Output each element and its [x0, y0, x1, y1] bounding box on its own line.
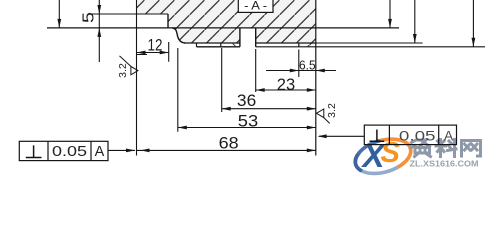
svg-text:6.5: 6.5 [299, 57, 316, 72]
svg-text:68: 68 [219, 134, 239, 152]
left edge + extension line [136, 0, 138, 156]
svg-text:3.2: 3.2 [326, 103, 338, 118]
small tick near left extension [137, 54, 148, 56]
arrow down on line 4 [472, 38, 476, 47]
lip left wall [298, 43, 300, 47]
left frame leader arrow [126, 149, 135, 153]
right frame perpendicularity symbol [370, 130, 385, 142]
bottom step tick [196, 43, 198, 47]
left roughness symbol 3.2 [120, 56, 138, 75]
dimension 5 arrows [97, 5, 101, 14]
dimension 12 line [137, 52, 169, 54]
recess top edge right of groove [256, 42, 316, 44]
right tolerance frame [364, 125, 456, 145]
dimension 36 arrows [222, 107, 231, 111]
part outlines [47, 0, 485, 156]
right frame leader [319, 135, 364, 137]
datum box void [238, 0, 273, 12]
svg-text:36: 36 [237, 92, 256, 110]
svg-text:0.05: 0.05 [52, 144, 87, 160]
recess top edge left of groove [184, 42, 240, 44]
arrow down on line 2 [388, 19, 392, 28]
groove void [240, 29, 256, 47]
groove left wall [239, 28, 241, 47]
dimension 68 arrows [141, 149, 150, 153]
bottom face left segment [197, 46, 240, 48]
watermark character 料 [436, 140, 456, 157]
left frame perpendicularity symbol [26, 145, 42, 157]
svg-text:0.05: 0.05 [399, 127, 436, 143]
internal horizontal line [47, 27, 399, 29]
left frame leader [108, 149, 135, 151]
dimension 23 arrows [256, 88, 265, 92]
dimension 53 arrows [178, 126, 187, 130]
part section hatched body [137, 0, 316, 47]
svg-text:ZL.XS1616.COM: ZL.XS1616.COM [410, 158, 479, 168]
bottom recess void [197, 44, 299, 47]
arrow down on line 1 [57, 19, 61, 28]
svg-text:A: A [95, 144, 105, 160]
svg-text:3.2: 3.2 [117, 63, 129, 78]
top crop vertical line 4 [472, 0, 474, 47]
dimension 6.5 arrows [290, 69, 299, 73]
watermark swirl logo [351, 133, 415, 179]
ogee fillet [172, 28, 185, 43]
right frame leader arrow [318, 134, 327, 138]
top crop vertical line 3 [414, 0, 416, 43]
svg-text:12: 12 [148, 36, 163, 54]
svg-text:- A -: - A - [244, 0, 267, 13]
datum box [238, 0, 273, 12]
svg-text:23: 23 [277, 76, 295, 94]
dimension 36 line [222, 108, 316, 110]
top crop vertical line 1 [58, 0, 60, 28]
recess tick [220, 43, 222, 47]
left tolerance frame [19, 141, 108, 160]
watermark character 网 [462, 141, 481, 157]
bore end wall [167, 14, 169, 28]
dimension 6.5 extension line [298, 50, 300, 78]
svg-text:5: 5 [81, 12, 98, 23]
dimension 23 line [256, 89, 316, 91]
arrow down on line 3 [413, 34, 417, 43]
groove right wall [255, 28, 257, 47]
dimension 36 extension line [221, 48, 223, 112]
bore top edge line [92, 13, 168, 15]
dimension 68 line [137, 149, 316, 151]
dimension 53 extension line [177, 48, 179, 132]
right roughness symbol 3.2 [316, 109, 329, 123]
dimension 53 line [178, 127, 316, 129]
bore band void [137, 14, 169, 28]
recess top stickout right [316, 42, 423, 44]
dimension 12 arrows [137, 51, 146, 55]
svg-text:A: A [444, 127, 454, 143]
watermark character 资 [412, 140, 431, 157]
right edge + extension line [315, 0, 317, 156]
svg-text:53: 53 [238, 112, 258, 130]
dimension 12 extension line [168, 42, 170, 62]
top crop vertical line 2 [389, 0, 391, 28]
stray hatch line across recess strip [232, 43, 236, 47]
dimension 6.5 line [266, 70, 336, 72]
dimension 5 line [98, 0, 100, 62]
bottom face right segment [256, 46, 485, 48]
dimension 23 extension line [255, 49, 257, 92]
